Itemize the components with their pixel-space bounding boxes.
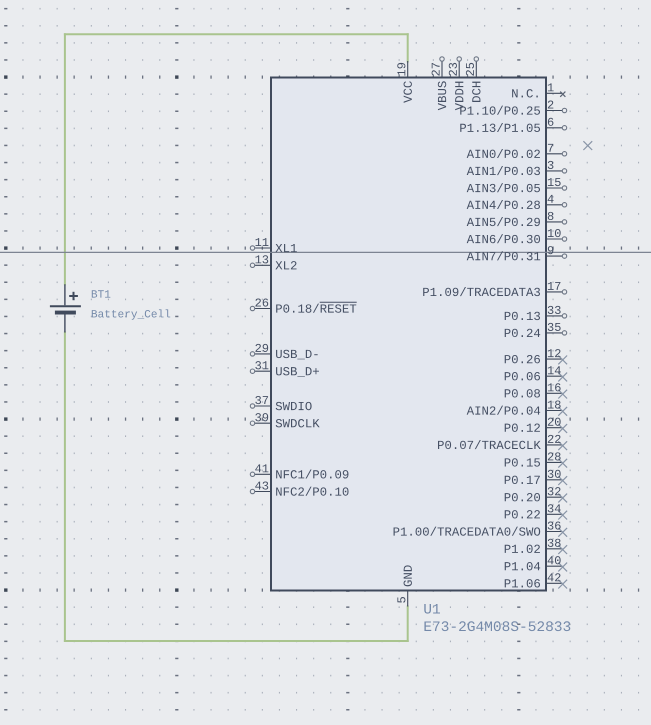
- pin 26 P0.18/RESET (left): [250, 298, 356, 312]
- pin 2 P1.10/P0.25 (right): [460, 100, 566, 114]
- pin 1 N.C. (right): [512, 83, 565, 97]
- label BT1 reference: [92, 290, 111, 297]
- pin 38 P1.02 (right): [505, 539, 567, 554]
- pin 3 AIN1/P0.03 (right): [467, 161, 567, 175]
- horizontal graphic line across sheet: [0, 251, 651, 253]
- pin 33 P0.13 (right): [505, 306, 567, 320]
- pin 22 P0.07/TRACECLK (right): [438, 435, 567, 450]
- pin 6 P1.13/P1.05 (right): [460, 118, 566, 132]
- pin 31 USB_D+ (left): [250, 361, 319, 376]
- no-connect X flag (floating): [583, 141, 592, 150]
- pin 41 NFC1/P0.09 (left): [250, 464, 348, 478]
- pin 20 P0.12 (right): [505, 418, 567, 433]
- pin 10 AIN6/P0.30 (right): [467, 229, 567, 243]
- label E73-2G4M08S-52833 value: [424, 621, 570, 631]
- wire top horizontal (battery + to VCC): [65, 33, 408, 35]
- pin 19 VCC (top): [397, 61, 412, 103]
- pin 7 AIN0/P0.02 (right): [467, 144, 567, 158]
- IC U1 body: [271, 78, 546, 591]
- pin 5 GND (bottom): [397, 565, 412, 606]
- pin 16 P0.08 (right): [505, 383, 567, 398]
- wire top-right vertical drop to VCC pin: [407, 34, 409, 61]
- pin 23 VDDH (top): [449, 57, 464, 110]
- pin 39 SWDCLK (left): [250, 413, 319, 427]
- pin 30 P0.17 (right): [505, 470, 567, 485]
- wire bottom horizontal (battery - to GND): [65, 640, 408, 642]
- pin 40 P1.04 (right): [505, 556, 567, 571]
- pin 13 XL2 (left): [250, 255, 296, 269]
- pin 34 P0.22 (right): [505, 504, 567, 519]
- wire bottom-right vertical up to GND pin: [407, 607, 409, 642]
- pin 17 P1.09/TRACEDATA3 (right): [423, 282, 567, 296]
- pin 8 AIN5/P0.29 (right): [467, 212, 567, 226]
- pin 14 P0.06 (right): [505, 366, 567, 381]
- pin 42 P1.06 (right): [505, 573, 567, 588]
- pin 32 P0.20 (right): [505, 487, 567, 502]
- wire left vertical lower (battery - down): [64, 333, 66, 642]
- label U1 reference: [424, 604, 440, 614]
- pin 29 USB_D- (left): [250, 344, 317, 359]
- battery BT1: [50, 284, 81, 332]
- pin 35 P0.24 (right): [505, 323, 567, 337]
- pin 4 AIN4/P0.28 (right): [467, 195, 567, 209]
- pin 37 SWDIO (left): [250, 396, 311, 410]
- pin 27 VBUS (top): [432, 57, 447, 110]
- pin 11 XL1 (left): [250, 238, 297, 252]
- pin 9 AIN7/P0.31 (right): [467, 246, 567, 260]
- pin 28 P0.15 (right): [505, 452, 567, 467]
- pin 36 P1.00/TRACEDATA0/SWO (right): [394, 521, 568, 536]
- pin 15 AIN3/P0.05 (right): [467, 178, 567, 192]
- label Battery_Cell value: [92, 309, 170, 319]
- pin 25 DCH (top): [466, 57, 481, 102]
- pin 12 P0.26 (right): [505, 349, 567, 364]
- pin 18 AIN2/P0.04 (right): [467, 400, 567, 415]
- wire left vertical upper (to battery +): [64, 34, 66, 284]
- pin 43 NFC2/P0.10 (left): [250, 481, 348, 495]
